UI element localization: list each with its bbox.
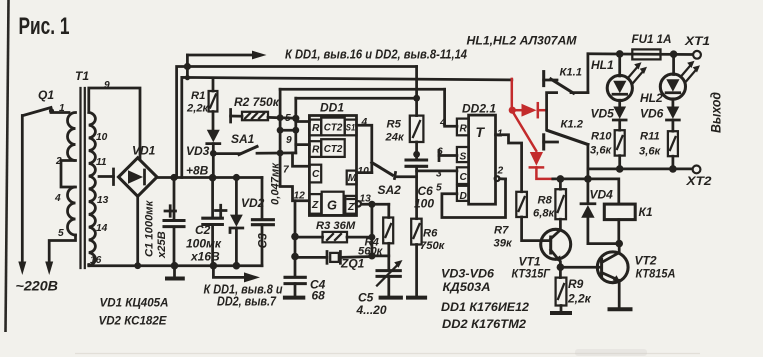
svg-text:5: 5 (436, 183, 442, 194)
svg-text:560к: 560к (358, 246, 384, 258)
red node (509, 107, 516, 114)
label VT1 (512, 255, 551, 281)
svg-text:14: 14 (96, 223, 108, 234)
label C6 (414, 184, 434, 211)
svg-text:R9: R9 (568, 277, 584, 291)
node HL2 top (670, 50, 678, 58)
terminal XT2 (693, 166, 701, 174)
svg-text:С2: С2 (195, 223, 211, 237)
red diode B (530, 152, 553, 179)
label R5 (385, 119, 405, 144)
wire pin2-pin4 (61, 161, 74, 188)
label R3 (316, 220, 356, 232)
svg-text:2,2к: 2,2к (567, 292, 592, 306)
svg-text:R7: R7 (494, 225, 509, 237)
wire DD1 pin9 (296, 143, 310, 146)
resistor R2 (231, 110, 300, 123)
capacitor C3 (252, 178, 273, 266)
scan artifact bottom line (75, 353, 700, 355)
figure caption (19, 13, 70, 40)
relay coil K1 (604, 204, 635, 244)
svg-text:R: R (312, 145, 320, 156)
switch Q1 (23, 88, 69, 116)
wire DD2 pin2 (495, 176, 506, 181)
resistor R3 (291, 232, 375, 242)
IC DD2.1 (457, 115, 496, 204)
svg-text:FU1 1А: FU1 1А (632, 32, 672, 46)
wire bridge right / +8V rail (157, 176, 262, 179)
svg-text:VD4: VD4 (590, 188, 614, 202)
wire tap 11 to bridge (99, 169, 114, 185)
arrow mains 2 (45, 262, 53, 276)
wire bridge bottom (134, 196, 141, 269)
svg-text:Z: Z (347, 202, 355, 213)
svg-text:24к: 24к (385, 132, 405, 144)
wire H98 (296, 97, 417, 100)
label VT2 (635, 254, 676, 281)
svg-text:R3 36М: R3 36М (316, 220, 356, 232)
svg-text:T1: T1 (75, 69, 89, 83)
transistor VT1 (541, 229, 571, 267)
svg-text:SA2: SA2 (378, 183, 402, 197)
label R2 (234, 95, 280, 109)
diode VD3 (207, 130, 220, 178)
capacitor C4 (283, 201, 305, 298)
wire DD2 pin3 (417, 170, 457, 173)
svg-text:HL1: HL1 (591, 58, 614, 72)
svg-text:~220В: ~220В (16, 278, 59, 294)
svg-text:CT2: CT2 (324, 123, 343, 134)
svg-text:R10: R10 (591, 131, 612, 143)
svg-text:SA1: SA1 (231, 132, 255, 146)
switch SA2 (372, 163, 417, 179)
svg-text:DD2, выв.7: DD2, выв.7 (217, 294, 277, 309)
wire secondary bottom (87, 265, 90, 266)
red wire from bus3 (511, 79, 514, 110)
label Vyhod (708, 92, 724, 133)
arrow to DD1 pin8 (213, 266, 260, 283)
svg-text:R2 750к: R2 750к (234, 95, 280, 109)
label XT2 (685, 174, 711, 188)
svg-text:S1: S1 (346, 123, 356, 133)
wire DD2 pin5 D feedback (442, 179, 506, 218)
resistor R11 (668, 131, 678, 169)
diode VD6 (667, 107, 680, 132)
label +8V (186, 164, 209, 178)
svg-text:DD1 К176ИЕ12: DD1 К176ИЕ12 (441, 300, 529, 314)
svg-text:К1: К1 (639, 205, 653, 219)
node HL1 top (616, 50, 624, 58)
XT2 line (588, 165, 692, 173)
svg-text:6,8к: 6,8к (533, 208, 556, 220)
nodes on ground bus (210, 262, 241, 270)
label R10 (590, 131, 613, 157)
pin 4 (54, 193, 61, 204)
switch SA1 (210, 147, 296, 157)
capacitor C6 (406, 160, 427, 219)
pin 13 (97, 195, 109, 206)
top line to XT1 (588, 52, 694, 55)
svg-text:R8: R8 (538, 195, 553, 207)
node C1 top (170, 174, 177, 181)
svg-text:DD1: DD1 (320, 101, 344, 115)
svg-text:S: S (460, 152, 467, 163)
svg-text:C: C (312, 169, 320, 180)
wire DD1 pin13 (356, 201, 389, 256)
svg-text:3,6к: 3,6к (639, 146, 662, 158)
svg-text:VT2: VT2 (635, 254, 657, 268)
svg-text:HL1,HL2 АЛ307АМ: HL1,HL2 АЛ307АМ (467, 34, 578, 48)
svg-text:R5: R5 (387, 119, 402, 131)
svg-text:C: C (460, 172, 468, 183)
T1 core (81, 88, 85, 268)
wire mains left (21, 116, 24, 264)
svg-text:ZQ1: ZQ1 (340, 257, 365, 271)
wire DD2 pin4 (445, 89, 457, 126)
resistor R9 (550, 267, 572, 313)
capacitor C1 (164, 178, 184, 266)
svg-text:КД503А: КД503А (443, 280, 491, 294)
svg-text:R6: R6 (423, 228, 438, 240)
svg-text:D: D (460, 191, 468, 202)
label C5 (356, 291, 387, 318)
svg-text:5: 5 (58, 228, 64, 239)
label VD2 type (99, 314, 168, 328)
svg-text:VD5: VD5 (591, 107, 615, 121)
label C2 (186, 223, 222, 264)
svg-text:100: 100 (414, 197, 434, 211)
wire DD1 pin4 (357, 125, 372, 172)
DD1 pin labels (283, 113, 371, 205)
red diode A (512, 103, 546, 117)
label R4 (358, 237, 384, 258)
T1 secondary winding (89, 112, 96, 265)
svg-text:Выход: Выход (708, 92, 724, 133)
resistor R6 (406, 219, 427, 298)
arrow mains 1 (18, 262, 26, 276)
svg-text:G: G (327, 198, 337, 213)
label SA1 (231, 132, 255, 146)
zener VD2 (230, 174, 243, 266)
svg-text:39к: 39к (494, 238, 513, 250)
terminal XT1 (693, 51, 701, 59)
capacitor C2 (203, 178, 226, 266)
wire secondary top to bridge (89, 88, 140, 158)
label HL2 (640, 91, 663, 105)
wire DD1 pin7 (293, 153, 310, 166)
label DD2.1 (462, 102, 496, 116)
label K1.1 (560, 67, 582, 79)
wire pin5 to arrow (49, 235, 75, 263)
svg-text:R1: R1 (191, 90, 205, 102)
svg-text:2: 2 (497, 166, 504, 177)
LED HL1 (607, 54, 647, 107)
svg-text:Q1: Q1 (38, 88, 54, 102)
node gnd (171, 262, 179, 270)
bus3 (182, 77, 512, 177)
label C3 value (270, 162, 282, 205)
svg-text:VD3-VD6: VD3-VD6 (441, 267, 494, 281)
svg-text:4...20: 4...20 (356, 303, 387, 317)
svg-text:750к: 750к (420, 240, 446, 252)
svg-text:К1.1: К1.1 (560, 67, 582, 79)
svg-text:К1.2: К1.2 (561, 119, 584, 131)
transistor VT2 (597, 244, 632, 310)
label VD5 (591, 107, 615, 121)
pin 11 (96, 157, 107, 168)
svg-text:VD1 КЦ405А: VD1 КЦ405А (100, 296, 169, 310)
pin 1 (59, 103, 65, 114)
svg-text:M: M (348, 173, 357, 184)
label R1 (186, 90, 210, 115)
pin 16 (90, 255, 102, 266)
svg-text:11: 11 (96, 157, 107, 168)
resistor R7 (516, 192, 550, 241)
diode VD5 (613, 107, 626, 131)
resistor R4 (372, 218, 393, 271)
label C4 (310, 278, 326, 303)
T1 primary winding 1 (68, 113, 76, 161)
svg-text:2,2к: 2,2к (186, 103, 210, 115)
svg-text:DD2.1: DD2.1 (462, 102, 496, 116)
label VD3 (186, 144, 210, 158)
svg-text:R: R (460, 124, 468, 135)
IC DD1 (309, 116, 356, 216)
pin 5 (58, 228, 64, 239)
svg-text:68: 68 (312, 289, 326, 303)
label VD6 (640, 107, 664, 121)
pin 14 (96, 223, 108, 234)
label K1 (639, 205, 653, 219)
label arrow bottom (204, 282, 283, 309)
fuse FU1 (632, 49, 660, 59)
DD2 cell letters (460, 124, 486, 203)
label VD1 (132, 144, 156, 158)
label VD1 type (100, 296, 169, 310)
DD2 pin labels (436, 118, 504, 194)
label DD1 (320, 101, 344, 115)
svg-text:CT2: CT2 (324, 144, 343, 155)
wire jog 130 (277, 127, 299, 134)
svg-text:VD6: VD6 (640, 107, 664, 121)
svg-text:R: R (312, 123, 320, 134)
resistor R1 (209, 78, 218, 130)
ground bus bottom (89, 264, 262, 267)
resistor R10 (615, 130, 625, 169)
svg-text:КТ815А: КТ815А (636, 267, 676, 281)
svg-text:ХТ1: ХТ1 (684, 34, 710, 48)
svg-text:T: T (476, 124, 486, 140)
wire column Q (294, 98, 297, 153)
svg-text:100мк: 100мк (186, 237, 222, 251)
pin 10 (96, 132, 108, 143)
wire column P (280, 89, 308, 201)
relay contact K1.2 (544, 131, 588, 179)
wire H89 (280, 88, 445, 91)
LED HL2 (660, 54, 700, 106)
svg-text:Рис. 1: Рис. 1 (19, 13, 70, 40)
label R8 (533, 195, 556, 220)
T1 primary winding 2 (68, 187, 76, 235)
node line relay (553, 175, 619, 204)
red wire diagonal (513, 112, 537, 151)
terminal pin6 S (439, 150, 457, 160)
label FU1 (632, 32, 672, 46)
resistor R5 (410, 67, 424, 160)
label K1.2 (561, 119, 584, 131)
svg-text:Z: Z (311, 200, 319, 211)
label VD2 (241, 196, 265, 210)
svg-text:7: 7 (283, 165, 290, 176)
svg-text:R11: R11 (640, 131, 660, 143)
node VD3/C2 (209, 174, 217, 182)
wire VD4-K1 bottom (588, 240, 623, 248)
svg-text:13: 13 (97, 195, 109, 206)
label C1 value (144, 199, 169, 259)
label ZQ1 (340, 257, 365, 271)
labels bottom types (441, 267, 494, 281)
crystal ZQ1 (291, 252, 375, 264)
svg-text:х16В: х16В (190, 250, 220, 264)
label R6 (420, 228, 446, 253)
DD1 cell letters (311, 123, 357, 214)
svg-text:К DD1, выв.16 и DD2, выв.8-11,: К DD1, выв.16 и DD2, выв.8-11,14 (285, 47, 467, 62)
label R9 (567, 277, 592, 306)
wire emitter to VT2 base (560, 266, 601, 269)
trimmer capacitor C5 (377, 260, 403, 298)
scan artifact smudge (575, 349, 647, 356)
pin 9 (104, 80, 110, 91)
svg-text:ХТ2: ХТ2 (685, 174, 711, 188)
svg-text:4: 4 (54, 193, 61, 204)
wire DD1 pin5 (296, 120, 310, 123)
svg-text:VD1: VD1 (132, 144, 156, 158)
relay contact K1.1 (544, 54, 588, 130)
svg-text:С3: С3 (256, 233, 270, 249)
page border left (6, 0, 9, 332)
svg-text:КТ315Г: КТ315Г (512, 267, 551, 281)
label SA2 (378, 183, 402, 197)
transformer T1 label (75, 69, 89, 83)
svg-text:HL2: HL2 (640, 91, 663, 105)
svg-text:VD3: VD3 (186, 144, 210, 158)
svg-text:1: 1 (59, 103, 65, 114)
resistor R8 (555, 179, 566, 230)
svg-text:10: 10 (96, 132, 108, 143)
svg-text:DD2 К176ТМ2: DD2 К176ТМ2 (442, 317, 526, 331)
label XT1 (684, 34, 710, 48)
label HL types (467, 34, 578, 48)
label VD4 (590, 188, 614, 202)
svg-text:С1 1000мк: С1 1000мк (144, 199, 156, 257)
bus2 +9V (177, 67, 417, 178)
ground symbol (165, 266, 185, 279)
label bus arrow (285, 47, 467, 62)
bridge rectifier VD1 (119, 158, 158, 197)
svg-text:4: 4 (439, 118, 446, 129)
label C3 (256, 233, 270, 249)
wire DD1 pin10 (357, 171, 372, 174)
svg-text:9: 9 (286, 135, 292, 146)
label R11 (639, 131, 662, 158)
diode VD4 (581, 179, 595, 244)
label HL1 (591, 58, 614, 72)
label R7 (494, 225, 513, 250)
svg-text:3,6к: 3,6к (590, 145, 613, 157)
node VT1 emitter (557, 263, 565, 271)
svg-text:х25В: х25В (156, 231, 168, 259)
svg-text:VD2 КС182Е: VD2 КС182Е (99, 314, 168, 328)
bus arrow to DD1 pin16 (184, 51, 267, 81)
pin 2 (55, 156, 62, 167)
wire DD2 pin1 to R7 (496, 135, 522, 192)
label ~220V (16, 278, 59, 294)
svg-text:+8В: +8В (186, 164, 209, 178)
svg-text:5: 5 (285, 113, 291, 124)
